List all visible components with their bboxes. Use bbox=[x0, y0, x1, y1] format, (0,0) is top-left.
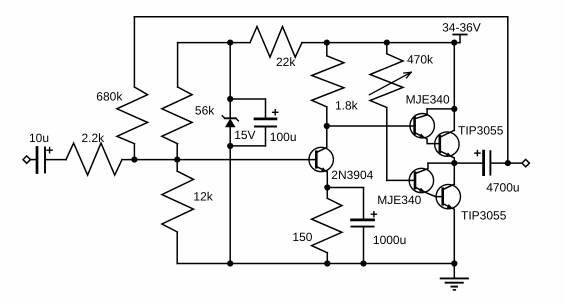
svg-text:1.8k: 1.8k bbox=[335, 98, 359, 112]
svg-text:680k: 680k bbox=[96, 90, 123, 104]
svg-text:2N3904: 2N3904 bbox=[331, 168, 373, 182]
svg-text:1000u: 1000u bbox=[373, 233, 406, 247]
svg-text:MJE340: MJE340 bbox=[406, 92, 450, 106]
svg-text:100u: 100u bbox=[270, 130, 297, 144]
svg-text:10u: 10u bbox=[29, 131, 49, 145]
svg-text:56k: 56k bbox=[195, 104, 215, 118]
svg-text:4700u: 4700u bbox=[486, 180, 519, 194]
svg-text:TIP3055: TIP3055 bbox=[458, 123, 504, 137]
svg-text:470k: 470k bbox=[407, 53, 434, 67]
svg-text:12k: 12k bbox=[193, 190, 213, 204]
svg-text:2.2k: 2.2k bbox=[82, 131, 106, 145]
svg-text:22k: 22k bbox=[276, 55, 296, 69]
svg-text:34-36V: 34-36V bbox=[442, 21, 481, 35]
svg-text:TIP3055: TIP3055 bbox=[461, 209, 507, 223]
svg-text:MJE340: MJE340 bbox=[377, 193, 421, 207]
svg-text:15V: 15V bbox=[234, 128, 255, 142]
svg-text:150: 150 bbox=[292, 230, 312, 244]
